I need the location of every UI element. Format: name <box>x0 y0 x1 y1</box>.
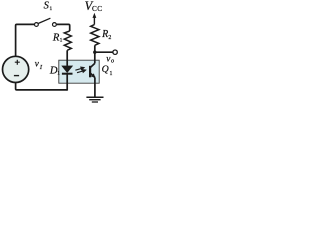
svg-text:1: 1 <box>110 71 113 77</box>
svg-text:1: 1 <box>50 6 53 12</box>
transistor Q1 body bar <box>89 66 91 78</box>
wire: emitter down to ground <box>94 78 96 97</box>
svg-text:1: 1 <box>57 70 60 76</box>
wire: source bottom to bottom rail <box>16 83 68 90</box>
optocoupler package box (shaded) <box>59 60 99 83</box>
resistor R1 <box>64 31 71 50</box>
vo terminal circle <box>113 50 117 54</box>
voltage source vI <box>3 56 29 82</box>
svg-text:CC: CC <box>92 5 103 13</box>
resistor R2 <box>91 25 99 46</box>
light arrows <box>75 67 85 73</box>
node junction dot <box>93 51 96 54</box>
svg-text:2: 2 <box>108 35 111 41</box>
LED D1 (triangle + cathode bar) <box>62 66 73 73</box>
svg-text:Q: Q <box>102 64 109 75</box>
Vcc supply arrow <box>93 16 95 24</box>
svg-text:o: o <box>111 57 114 64</box>
wire: junction down to collector <box>94 52 96 63</box>
wire: R2 bottom to junction <box>94 45 96 52</box>
switch S1 left contact <box>35 23 39 27</box>
ground symbol <box>86 97 103 102</box>
wire: LED cathode down to bottom rail <box>66 74 68 91</box>
switch S1 right contact <box>53 23 57 27</box>
minus sign <box>14 75 19 77</box>
wire: R1 bottom to LED anode <box>66 50 68 66</box>
switch S1 arm <box>38 18 50 23</box>
svg-text:R: R <box>52 33 60 44</box>
wire: switch to R1 top <box>57 24 70 31</box>
wire: top-left rail (source top to switch) <box>16 24 35 56</box>
wire: junction to vo terminal <box>95 51 113 53</box>
svg-text:R: R <box>101 29 108 40</box>
background <box>0 0 120 108</box>
svg-text:1: 1 <box>60 38 63 44</box>
transistor Q1 collector lead <box>91 63 95 67</box>
plus sign <box>15 60 20 65</box>
transistor Q1 emitter lead with arrow <box>91 73 95 77</box>
